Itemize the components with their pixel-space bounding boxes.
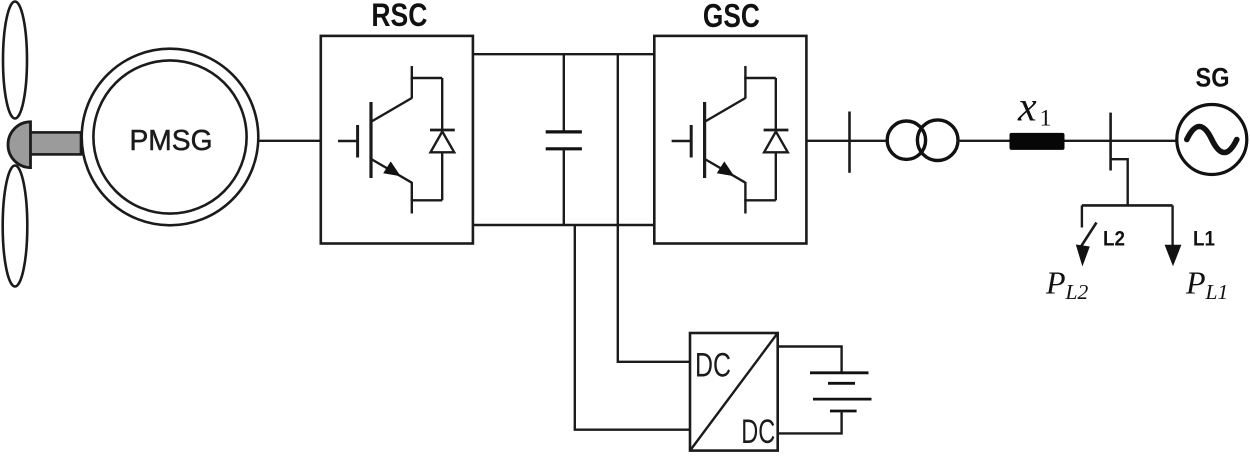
svg-text:DC: DC (741, 413, 775, 451)
load header bar (1082, 204, 1173, 207)
load bus bar (1109, 113, 1112, 171)
synchronous generator SG circle (1177, 105, 1247, 175)
PMSG outer circle (82, 49, 259, 226)
transformer T1 secondary circle (917, 120, 958, 161)
GSC box (654, 36, 806, 244)
DC link top rail (473, 53, 654, 55)
SG sine wave (1187, 127, 1237, 153)
IGBT cell U1 (RSC) (338, 66, 455, 214)
DC link bottom rail (473, 224, 654, 226)
load L1 drop wire (1171, 205, 1173, 246)
wire PMSG to RSC (258, 140, 321, 142)
wire bus to SG (1111, 140, 1177, 142)
svg-text:RSC: RSC (371, 0, 427, 33)
wind turbine blade (top) (3, 2, 27, 119)
capacitor C1 bottom lead (563, 149, 565, 225)
turbine shaft (28, 132, 81, 154)
load L1 arrowhead (1165, 245, 1182, 266)
DC/DC diagonal (690, 333, 778, 451)
svg-text:PMSG: PMSG (130, 125, 213, 157)
bus tick near GSC (848, 112, 851, 173)
capacitor C1 plates (546, 132, 582, 149)
wire transformer to reactor (957, 140, 1011, 142)
IGBT cell U2 (GSC) (672, 66, 789, 214)
battery top wire (778, 347, 842, 373)
turbine hub (8, 122, 31, 168)
transformer T1 primary circle (887, 121, 925, 159)
battery plate long 1 (810, 371, 869, 374)
wind turbine blade (bottom) (3, 166, 28, 287)
reactor x1 body (1010, 133, 1065, 150)
RSC box (321, 36, 473, 244)
wire GSC to transformer (806, 140, 888, 142)
load L2 switch blade (1081, 223, 1097, 247)
svg-text:GSC: GSC (703, 0, 760, 34)
PMSG inner circle (93, 60, 246, 213)
load L2 stub (1081, 205, 1083, 227)
svg-text:L1: L1 (1193, 228, 1215, 251)
svg-text:L2: L2 (1103, 228, 1125, 251)
feeder jog from bus (1111, 159, 1128, 205)
svg-text:x: x (1017, 85, 1037, 131)
capacitor C1 top lead (563, 54, 565, 132)
DC tap wire from top rail to DC/DC upper input (618, 54, 690, 362)
DC tap wire from bottom rail to DC/DC lower input (575, 225, 690, 430)
svg-text:SG: SG (1196, 63, 1230, 93)
DC/DC converter box (690, 333, 778, 451)
wire reactor to bus (1065, 140, 1111, 142)
battery plate long 2 (813, 398, 872, 401)
battery bottom wire (778, 411, 842, 433)
load L2 arrowhead (1076, 245, 1090, 267)
battery plate short 2 (830, 410, 857, 413)
svg-text:1: 1 (1040, 106, 1052, 132)
battery plate short 1 (828, 382, 855, 385)
svg-text:DC: DC (695, 347, 731, 385)
